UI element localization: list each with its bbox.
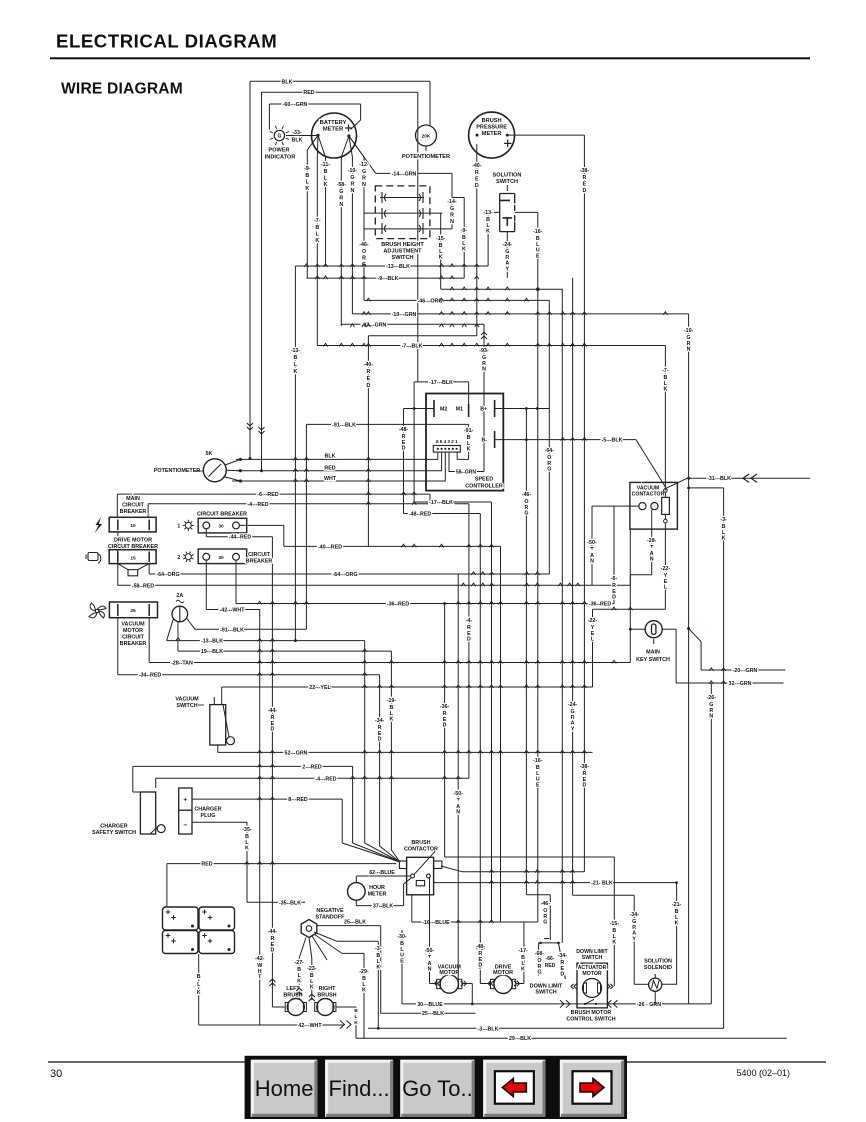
- svg-text:-36--RED: -36--RED: [589, 602, 612, 608]
- wire crossover hops: [304, 264, 308, 267]
- wire 27 BLK: [298, 958, 300, 999]
- svg-text:POTENTIOMETER: POTENTIOMETER: [402, 154, 450, 160]
- svg-text:-40-: -40-: [472, 163, 482, 169]
- svg-text:K: K: [245, 846, 249, 852]
- svg-text:MOTOR: MOTOR: [582, 971, 601, 977]
- svg-text:SOLUTION: SOLUTION: [644, 959, 672, 965]
- svg-text:BRUSH HEIGHT: BRUSH HEIGHT: [381, 242, 424, 248]
- svg-text:N: N: [590, 559, 594, 565]
- svg-text:-13---BLK: -13---BLK: [386, 264, 410, 270]
- svg-text:-35--BLK: -35--BLK: [279, 900, 301, 906]
- button arrow left: [483, 1060, 545, 1117]
- svg-text:-15-: -15-: [436, 236, 446, 242]
- button arrow right: [560, 1060, 624, 1117]
- svg-text:BRUSH: BRUSH: [482, 118, 502, 124]
- svg-text:Y: Y: [632, 936, 636, 942]
- svg-text:E: E: [400, 958, 404, 964]
- vertical 7 BLK right to vacuum contactor: [664, 346, 666, 491]
- svg-text:O: O: [362, 249, 366, 255]
- bus 30 BLUE: [402, 1003, 711, 1005]
- svg-text:INDICATOR: INDICATOR: [265, 155, 296, 161]
- svg-text:BATTERY: BATTERY: [320, 120, 347, 126]
- wire 6 RED: [117, 493, 430, 495]
- bus 15 BLK to 16 BLUE: [441, 288, 563, 290]
- battery BLK wire: [198, 954, 200, 1025]
- svg-text:-64--ORG: -64--ORG: [156, 572, 179, 578]
- vertical 50 TAN to vacuum motor: [429, 878, 431, 984]
- fan wires into brush contactor: [342, 843, 400, 862]
- lightning bolt icon: [95, 517, 103, 533]
- svg-text:N: N: [709, 714, 713, 720]
- svg-text:N: N: [339, 202, 343, 208]
- svg-text:-22-: -22-: [588, 618, 598, 624]
- svg-text:-60---GRN: -60---GRN: [283, 102, 308, 108]
- svg-text:E: E: [536, 253, 540, 259]
- negative standoff: [301, 920, 317, 938]
- svg-text:-91---BLK: -91---BLK: [332, 422, 356, 428]
- button Home: [251, 1060, 318, 1117]
- svg-text:8---RED: 8---RED: [288, 797, 308, 803]
- svg-text:-29-: -29-: [359, 969, 369, 975]
- fan icon: [89, 603, 106, 618]
- svg-text:-48-: -48-: [399, 427, 409, 433]
- svg-text:-14-: -14-: [447, 199, 457, 205]
- svg-text:-4---RED: -4---RED: [315, 776, 336, 782]
- svg-text:RED: RED: [303, 90, 314, 96]
- svg-text:R: R: [362, 175, 366, 181]
- svg-text:-64---ORG: -64---ORG: [332, 572, 357, 578]
- svg-text:-34-: -34-: [375, 718, 385, 724]
- brush height adjustment switch dashed box: [375, 186, 430, 239]
- svg-text:-16-: -16-: [533, 758, 543, 764]
- potentiometer 5K: [203, 459, 226, 482]
- svg-text:-10-: -10-: [348, 168, 358, 174]
- left brush motor: [287, 999, 304, 1016]
- svg-text:-24-: -24-: [568, 702, 578, 708]
- svg-text:CHARGER: CHARGER: [100, 824, 127, 830]
- svg-text:CIRCUIT BREAKER: CIRCUIT BREAKER: [197, 512, 247, 518]
- wire 13 BLK solution switch left leg: [488, 211, 500, 213]
- wire 32 GRN: [676, 682, 784, 684]
- svg-text:E: E: [583, 181, 587, 187]
- svg-text:SWITCH: SWITCH: [582, 955, 603, 961]
- svg-text:N: N: [428, 967, 432, 973]
- svg-text:−: −: [183, 822, 187, 829]
- wire 3 BLK: [687, 487, 690, 490]
- wire BLK top: [250, 80, 430, 82]
- navigation bar: [245, 1056, 627, 1119]
- svg-text:5400 (02–01): 5400 (02–01): [736, 1068, 790, 1078]
- footer rule: [48, 1061, 826, 1063]
- key switch feeder bus: [593, 608, 666, 610]
- standoff fan wires: [314, 932, 337, 941]
- gear icon CB1: [185, 522, 191, 528]
- vertical 40 RED: [476, 144, 478, 336]
- svg-text:G: G: [350, 175, 354, 181]
- svg-text:-6-: -6-: [611, 576, 618, 582]
- svg-text:-9---BLK: -9---BLK: [378, 276, 399, 282]
- svg-text:-33-: -33-: [292, 130, 302, 136]
- svg-text:D: D: [612, 595, 616, 601]
- switch contacts middle row: [364, 212, 442, 214]
- svg-text:-9-: -9-: [461, 228, 468, 234]
- wire 44 RED to left brush: [272, 1006, 285, 1008]
- svg-text:VACUUM: VACUUM: [121, 622, 145, 628]
- svg-text:G: G: [547, 467, 551, 473]
- svg-text:K: K: [297, 979, 301, 985]
- svg-text:-17---BLK: -17---BLK: [429, 500, 453, 506]
- bus 13 BLK: [295, 265, 488, 267]
- svg-text:25: 25: [130, 608, 136, 614]
- wire 8 RED: [192, 798, 342, 800]
- svg-text:D: D: [478, 963, 482, 969]
- svg-text:30: 30: [218, 524, 224, 530]
- svg-text:-36--RED: -36--RED: [387, 602, 410, 608]
- vacuum motor circuit breaker CB 25: [109, 602, 157, 618]
- svg-text:B: B: [315, 225, 319, 231]
- svg-text:K: K: [462, 247, 466, 253]
- svg-text:R: R: [366, 369, 370, 375]
- bus 10 GRN: [352, 313, 688, 315]
- wire 3 BLK vertical left: [377, 941, 379, 1028]
- svg-text:-50-: -50-: [587, 540, 597, 546]
- svg-text:D: D: [467, 637, 471, 643]
- svg-text:-23-: -23-: [307, 966, 317, 972]
- button Go To..: [400, 1060, 474, 1117]
- svg-text:B-: B-: [482, 438, 488, 444]
- svg-text:N: N: [482, 367, 486, 373]
- right brush motor: [317, 999, 334, 1016]
- main key switch: [645, 621, 662, 638]
- brush motor control switch symbol: [585, 999, 594, 1004]
- drive motor: [494, 975, 512, 993]
- wire 62 BLUE: [356, 875, 411, 877]
- wire 22 YEL down to bus: [592, 609, 594, 687]
- svg-text:CIRCUIT: CIRCUIT: [248, 552, 271, 558]
- svg-text:-21-: -21-: [672, 902, 682, 908]
- terminal M1: [468, 404, 470, 417]
- svg-text:6 5 4 3 2 1: 6 5 4 3 2 1: [436, 439, 458, 444]
- svg-text:WHT: WHT: [324, 476, 337, 482]
- svg-text:58--GRN: 58--GRN: [456, 470, 476, 476]
- svg-text:Go To..: Go To..: [402, 1076, 473, 1101]
- svg-text:2A: 2A: [176, 593, 183, 599]
- pin wire 58 GRN: [449, 452, 484, 471]
- svg-text:B: B: [293, 355, 297, 361]
- svg-text:D: D: [378, 737, 382, 743]
- svg-text:BREAKER: BREAKER: [120, 641, 147, 647]
- bus 36 RED: [236, 603, 614, 605]
- svg-text:D: D: [443, 723, 447, 729]
- svg-text:-58-: -58-: [337, 182, 347, 188]
- svg-text:10: 10: [130, 523, 136, 529]
- svg-text:-42---WHT: -42---WHT: [219, 608, 245, 614]
- svg-text:-40---RED: -40---RED: [318, 544, 342, 550]
- plug below drive breaker: [118, 564, 128, 570]
- wire 2 RED: [133, 765, 353, 767]
- svg-text:25---BLK: 25---BLK: [422, 1011, 444, 1017]
- svg-text:METER: METER: [323, 127, 344, 133]
- svg-text:-14---GRN: -14---GRN: [392, 171, 417, 177]
- bus 40 RED: [284, 545, 501, 547]
- battery meter: [312, 113, 357, 158]
- wire 25 BLK from standoff: [317, 925, 381, 927]
- wire 38 RED to contactor tab: [462, 871, 584, 873]
- svg-text:K: K: [305, 186, 309, 192]
- wire 35 BLK: [192, 821, 247, 823]
- wire 4 RED: [148, 503, 469, 505]
- svg-text:MOTOR: MOTOR: [123, 628, 143, 634]
- svg-text:-31---BLK: -31---BLK: [707, 476, 731, 482]
- hour meter: [348, 883, 366, 901]
- svg-text:-40-: -40-: [364, 362, 374, 368]
- svg-text:K: K: [376, 965, 380, 971]
- svg-text:-46-: -46-: [359, 242, 369, 248]
- svg-text:62---BLUE: 62---BLUE: [369, 870, 395, 876]
- vertical 10 GRN: [351, 157, 353, 314]
- wire 36 RED from CB2 right: [235, 560, 237, 603]
- svg-text:Y: Y: [506, 266, 510, 272]
- svg-text:POTENTIOMETER: POTENTIOMETER: [154, 468, 201, 474]
- svg-text:DRIVE MOTOR: DRIVE MOTOR: [114, 538, 152, 544]
- svg-text:BRUSH MOTOR: BRUSH MOTOR: [571, 1010, 612, 1016]
- svg-text:-35-: -35-: [242, 827, 252, 833]
- svg-text:BRUSH: BRUSH: [283, 993, 302, 999]
- wire 44 RED: [205, 529, 207, 537]
- wire 34 RED: [117, 618, 119, 675]
- svg-text:METER: METER: [482, 131, 502, 137]
- svg-text:-64-: -64-: [545, 448, 555, 454]
- svg-text:42---WHT: 42---WHT: [298, 1023, 322, 1029]
- wire 6 RED vertical right: [613, 506, 615, 603]
- svg-text:K: K: [362, 988, 366, 994]
- svg-text:-3---BLK: -3---BLK: [478, 1026, 499, 1032]
- wire 19 BLK: [177, 641, 179, 652]
- svg-text:-9-: -9-: [304, 166, 311, 172]
- svg-text:-7---BLK: -7---BLK: [402, 344, 423, 350]
- switch contacts bottom row: [364, 228, 452, 230]
- switch contacts top row: [380, 197, 424, 199]
- vertical 34 GRAY to solution solenoid: [573, 894, 635, 896]
- potentiometer 20K: [416, 125, 437, 146]
- svg-text:CIRCUIT: CIRCUIT: [122, 503, 145, 509]
- svg-text:ELECTRICAL DIAGRAM: ELECTRICAL DIAGRAM: [56, 31, 277, 52]
- svg-text:CONTACTOR: CONTACTOR: [632, 491, 665, 497]
- svg-text:-34--RED: -34--RED: [139, 673, 162, 679]
- svg-text:-36-: -36-: [440, 704, 450, 710]
- svg-text:N: N: [350, 188, 354, 194]
- svg-text:ADJUSTMENT: ADJUSTMENT: [383, 249, 422, 255]
- svg-text:-13-: -13-: [483, 210, 493, 216]
- svg-text:-68-: -68-: [535, 951, 545, 957]
- svg-text:K: K: [612, 940, 616, 946]
- svg-text:SWITCH: SWITCH: [535, 990, 556, 996]
- svg-text:R: R: [475, 170, 479, 176]
- wire 20 GRN: [687, 627, 690, 630]
- svg-text:-19-: -19-: [387, 698, 397, 704]
- vertical 91 BLK: [306, 423, 468, 425]
- svg-text:Home: Home: [255, 1076, 314, 1101]
- speed controller U1: [426, 394, 503, 491]
- svg-text:D: D: [582, 783, 586, 789]
- wire 14 GRN: [376, 172, 452, 174]
- svg-text:K: K: [521, 967, 525, 973]
- svg-text:BRUSH: BRUSH: [317, 993, 336, 999]
- svg-text:K: K: [324, 182, 328, 188]
- wire 50 TAN from contactor: [591, 506, 593, 585]
- vertical 64 ORG label: [548, 409, 550, 575]
- chevrons on 27 23 BLK: [296, 988, 302, 995]
- bus 17 BLK lower: [414, 501, 430, 503]
- wire 42 WHT bottom: [199, 1024, 345, 1026]
- svg-text:HOUR: HOUR: [369, 885, 385, 891]
- svg-text:Find...: Find...: [329, 1076, 390, 1101]
- svg-text:-50-: -50-: [453, 791, 463, 797]
- svg-text:-13--BLK: -13--BLK: [201, 639, 223, 645]
- svg-text:K: K: [197, 990, 201, 996]
- svg-text:K: K: [675, 921, 679, 927]
- wire 17 BLK top: [414, 381, 469, 383]
- svg-text:G: G: [339, 189, 343, 195]
- terminal M2: [433, 400, 435, 417]
- svg-text:G: G: [543, 920, 547, 926]
- brush contactor: [407, 857, 434, 895]
- svg-text:-26 - GRN: -26 - GRN: [637, 1002, 661, 1008]
- svg-text:CONTROLLER: CONTROLLER: [465, 483, 503, 489]
- svg-text:B: B: [324, 169, 328, 175]
- svg-text:MAIN: MAIN: [126, 496, 140, 502]
- svg-text:2: 2: [177, 555, 180, 561]
- wire 38 RED from pressure meter: [507, 134, 584, 136]
- svg-text:19---BLK: 19---BLK: [201, 649, 223, 655]
- svg-text:32---GRN: 32---GRN: [729, 681, 752, 687]
- svg-text:-20---GRN: -20---GRN: [733, 668, 758, 674]
- svg-text:SPEED: SPEED: [475, 477, 493, 483]
- wire 33 BLK: [286, 135, 317, 137]
- wire 16 BLUE solution switch right leg: [515, 211, 538, 213]
- svg-text:K: K: [486, 229, 490, 235]
- bus 48 RED lower: [404, 513, 481, 515]
- wire 35 BLK horizontal: [247, 901, 305, 903]
- svg-text:B: B: [305, 173, 309, 179]
- power indicator G lamp: [274, 130, 284, 140]
- button Find...: [325, 1060, 393, 1117]
- svg-text:-50-: -50-: [425, 948, 435, 954]
- svg-text:-15-: -15-: [610, 921, 620, 927]
- svg-text:-7-: -7-: [314, 218, 321, 224]
- svg-text:K: K: [315, 238, 319, 244]
- svg-text:B: B: [354, 1008, 358, 1014]
- vertical 58 GRN: [340, 157, 342, 326]
- vertical 9 BLK right: [463, 198, 465, 279]
- vertical 15 BLK right: [613, 857, 615, 986]
- pin connector 654321: [433, 446, 460, 453]
- svg-text:D: D: [270, 727, 274, 733]
- wire 37 BLK: [356, 905, 403, 907]
- vertical 10 GRN right: [688, 314, 690, 1004]
- svg-text:B: B: [197, 974, 201, 980]
- svg-text:-44--RED: -44--RED: [229, 535, 252, 541]
- svg-text:G: G: [450, 206, 454, 212]
- wire 16 BLUE bottom: [412, 921, 538, 923]
- svg-text:15: 15: [130, 555, 136, 561]
- svg-text:SOLENOID: SOLENOID: [644, 965, 672, 971]
- svg-text:G: G: [537, 970, 541, 976]
- svg-text:POWER: POWER: [268, 148, 289, 154]
- wire 4 RED lower: [156, 777, 469, 779]
- wire 28 TAN from contactor: [651, 510, 653, 575]
- svg-text:E: E: [536, 782, 540, 788]
- svg-text:K: K: [663, 387, 667, 393]
- svg-text:K: K: [439, 255, 443, 261]
- svg-text:G: G: [524, 511, 528, 517]
- svg-text:-48--RED: -48--RED: [409, 512, 432, 518]
- vertical 36 RED to brush contactor tab: [444, 604, 446, 858]
- wire 52 GRN: [217, 745, 219, 752]
- svg-text:-27-: -27-: [294, 960, 304, 966]
- wire 23 BLK: [311, 958, 313, 1000]
- svg-text:N: N: [362, 182, 366, 188]
- svg-text:D: D: [366, 383, 370, 389]
- svg-text:-38-: -38-: [580, 764, 590, 770]
- wire 60 GRN: [269, 103, 360, 105]
- svg-text:-44-: -44-: [268, 708, 278, 714]
- svg-text:30: 30: [218, 555, 224, 561]
- wire 22 YEL from contactor: [664, 523, 666, 609]
- svg-text:CIRCUIT: CIRCUIT: [122, 635, 145, 641]
- svg-text:-66-: -66-: [546, 956, 555, 962]
- svg-text:-28-: -28-: [647, 538, 657, 544]
- svg-text:D: D: [475, 183, 479, 189]
- svg-text:SOLUTION: SOLUTION: [493, 173, 522, 179]
- bus 7 BLK: [317, 345, 665, 347]
- pin wires to 5K potentiometer: [236, 452, 438, 459]
- vertical 9 BLK: [306, 150, 308, 278]
- bus 64 ORG: [148, 564, 150, 574]
- svg-text:G: G: [362, 262, 366, 268]
- svg-text:SAFETY SWITCH: SAFETY SWITCH: [92, 830, 136, 836]
- svg-text:-16-: -16-: [533, 229, 543, 235]
- svg-text:30---BLUE: 30---BLUE: [417, 1002, 443, 1008]
- svg-text:K: K: [389, 717, 393, 723]
- bus 25 BLK: [381, 1012, 476, 1014]
- svg-text:-46-: -46-: [522, 492, 532, 498]
- svg-text:-16---BLUE: -16---BLUE: [422, 920, 450, 926]
- wire 31 BLK: [687, 477, 810, 479]
- svg-text:BREAKER: BREAKER: [120, 509, 147, 515]
- wire 13 BLK lower: [167, 619, 174, 641]
- svg-text:M1: M1: [456, 407, 463, 413]
- svg-text:G: G: [362, 169, 366, 175]
- wire 26 GRN: [710, 683, 712, 1004]
- svg-text:-11-: -11-: [321, 162, 330, 168]
- vacuum motor: [440, 975, 458, 993]
- svg-text:D: D: [582, 188, 586, 194]
- wire 91 BLK: [187, 618, 196, 629]
- svg-text:-7-: -7-: [662, 368, 669, 374]
- svg-text:BLK: BLK: [292, 138, 303, 144]
- continuation chevrons on BLK RED verticals: [247, 423, 253, 430]
- bus 3 BLK: [368, 1027, 724, 1029]
- svg-text:-34-: -34-: [629, 912, 639, 918]
- svg-text:22---YEL: 22---YEL: [309, 685, 331, 691]
- svg-text:E: E: [367, 376, 371, 382]
- svg-text:-24-: -24-: [503, 242, 513, 248]
- svg-text:+: +: [183, 797, 187, 804]
- svg-text:N: N: [450, 219, 454, 225]
- svg-text:-10---GRN: -10---GRN: [392, 312, 417, 318]
- svg-text:MOTOR: MOTOR: [439, 970, 459, 976]
